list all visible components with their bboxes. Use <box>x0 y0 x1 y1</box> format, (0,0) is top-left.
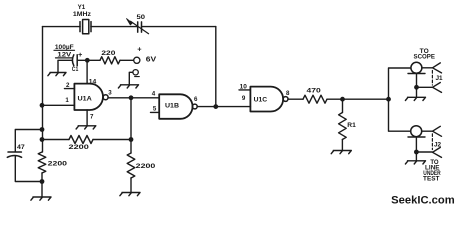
node 47 branch top <box>40 127 45 132</box>
J1 contact top <box>433 63 442 73</box>
pin 2 stub <box>65 88 75 90</box>
pin 10 stub <box>239 89 250 91</box>
resistor 2200 right vertical <box>127 153 135 178</box>
svg-text:470: 470 <box>307 88 322 95</box>
wire 47 branch bottom <box>15 157 42 182</box>
svg-text:SCOPE: SCOPE <box>414 54 435 61</box>
wire C1 to ground hook <box>58 60 72 72</box>
wire 470 to J node <box>327 98 389 100</box>
resistor R1 <box>339 113 347 140</box>
wire pin1 U1A <box>42 104 74 106</box>
terminal circle spare input <box>133 70 138 75</box>
J2 dashed body <box>431 134 433 150</box>
svg-text:14: 14 <box>89 78 97 85</box>
svg-text:2200: 2200 <box>48 161 68 168</box>
svg-text:7: 7 <box>90 113 94 120</box>
ground J1 <box>405 97 425 100</box>
op U1B gate body <box>159 94 192 119</box>
wire right corner down to U1B output node <box>215 27 217 107</box>
wire J2 tip to contact <box>422 130 433 132</box>
node pin1 <box>40 103 45 108</box>
svg-text:+: + <box>137 45 142 54</box>
resistor 2200 horizontal <box>69 136 93 144</box>
connector J2 tip circle <box>411 126 422 137</box>
J1 dashed body <box>431 71 433 86</box>
wire J2 branch down <box>389 99 411 131</box>
wire 2200 horizontal left lead <box>42 139 69 141</box>
svg-text:TEST: TEST <box>423 176 440 182</box>
svg-text:100µF: 100µF <box>55 44 74 51</box>
svg-text:6: 6 <box>194 96 198 103</box>
svg-text:1MHz: 1MHz <box>73 11 91 18</box>
U1B output bubble <box>192 104 197 109</box>
connector J1 tip circle <box>411 62 422 73</box>
capacitor C1 <box>72 55 77 66</box>
ground spare input <box>118 85 138 88</box>
wire top rail left segment <box>43 26 81 28</box>
wire trimmer to right corner <box>142 26 216 28</box>
svg-text:50: 50 <box>137 14 146 21</box>
node J1 sleeve <box>414 85 419 90</box>
underline 12V <box>56 57 73 59</box>
node U1A output <box>129 95 134 100</box>
svg-text:2200: 2200 <box>136 163 156 170</box>
wire 220 to 6V terminal <box>120 59 134 61</box>
pin 7 wire <box>86 110 88 125</box>
wire J1 tip to contact <box>422 67 432 69</box>
variable capacitor 50 <box>131 21 149 33</box>
svg-text:1: 1 <box>65 97 69 104</box>
node U1B output <box>213 104 218 109</box>
wire spare input to ground <box>129 72 133 84</box>
node J2 sleeve <box>414 150 419 155</box>
svg-text:10: 10 <box>240 83 248 90</box>
terminal 6V <box>134 57 140 63</box>
resistor 470 <box>303 95 327 103</box>
J1 sleeve bar <box>408 74 425 88</box>
node 2200h right <box>129 137 134 142</box>
ground C1 <box>48 73 66 76</box>
svg-text:J2: J2 <box>434 141 442 148</box>
wire crystal to trimmer <box>91 26 137 28</box>
svg-text:4: 4 <box>152 91 156 98</box>
wire R1 branch <box>342 99 344 112</box>
svg-text:J1: J1 <box>436 75 444 82</box>
ground R1 <box>331 151 351 154</box>
svg-text:C1: C1 <box>72 66 79 73</box>
underline 100uF <box>54 49 75 51</box>
svg-text:12V: 12V <box>57 52 72 59</box>
ground J2 <box>405 161 425 164</box>
node 2200h left <box>40 137 45 142</box>
ground left 2200 <box>31 197 51 200</box>
svg-text:U1C: U1C <box>254 96 268 103</box>
capacitor 47 <box>7 152 21 157</box>
svg-text:47: 47 <box>17 145 25 151</box>
node J branch <box>386 97 391 102</box>
wire U1B output to U1C pin9 <box>197 106 250 108</box>
svg-text:+: + <box>78 50 83 59</box>
svg-text:6V: 6V <box>146 57 157 64</box>
node R1 tap <box>340 97 345 102</box>
ground pin 7 <box>76 126 96 129</box>
wire J1 branch up <box>389 68 411 99</box>
U1A output bubble <box>103 95 108 100</box>
node 47 branch bottom <box>40 179 45 184</box>
svg-text:U1B: U1B <box>165 103 179 110</box>
svg-text:2: 2 <box>66 82 70 89</box>
wire left rail <box>42 27 44 152</box>
node C1/220/pin14 <box>85 58 90 63</box>
wire J1 sleeve to ground <box>416 87 418 96</box>
wire mid vertical from U1A output <box>130 98 132 153</box>
svg-text:SeekIC.com: SeekIC.com <box>391 195 455 207</box>
op U1C gate body <box>250 87 283 112</box>
pin 5 stub <box>151 111 160 113</box>
wire pin14 <box>86 60 88 83</box>
resistor 220 <box>100 57 120 64</box>
svg-text:8: 8 <box>286 90 290 97</box>
wire J2 sleeve to ground <box>415 152 417 160</box>
resistor 2200 left vertical <box>38 152 46 173</box>
op U1A gate body <box>74 84 103 110</box>
svg-text:3: 3 <box>108 89 112 96</box>
crystal Y1 <box>80 20 91 34</box>
svg-text:2200: 2200 <box>69 144 90 151</box>
J2 contact bottom <box>433 147 442 157</box>
svg-text:9: 9 <box>242 95 246 102</box>
J2 contact top <box>433 126 442 136</box>
svg-text:5: 5 <box>153 106 157 113</box>
wire 47 branch top <box>15 130 42 152</box>
ground right 2200 <box>120 193 140 196</box>
svg-text:U1A: U1A <box>78 95 93 102</box>
wire resistor to ground <box>41 173 43 197</box>
wire R1 to ground <box>341 140 343 151</box>
wire J1 sleeve to contact <box>417 86 433 88</box>
wire J2 sleeve to contact <box>416 151 432 153</box>
wire U1A output to U1B <box>108 97 159 99</box>
wire 2200 horizontal right lead <box>93 139 131 141</box>
J2 sleeve bar <box>408 137 425 152</box>
wire C1 to node <box>77 59 100 61</box>
J1 contact bottom <box>433 83 442 93</box>
U1C output bubble <box>283 97 288 102</box>
svg-text:R1: R1 <box>347 122 356 129</box>
wire U1C output <box>288 98 303 100</box>
wire to ground below right 2200 <box>130 178 132 192</box>
svg-text:Y1: Y1 <box>78 4 86 11</box>
svg-text:220: 220 <box>101 50 116 57</box>
